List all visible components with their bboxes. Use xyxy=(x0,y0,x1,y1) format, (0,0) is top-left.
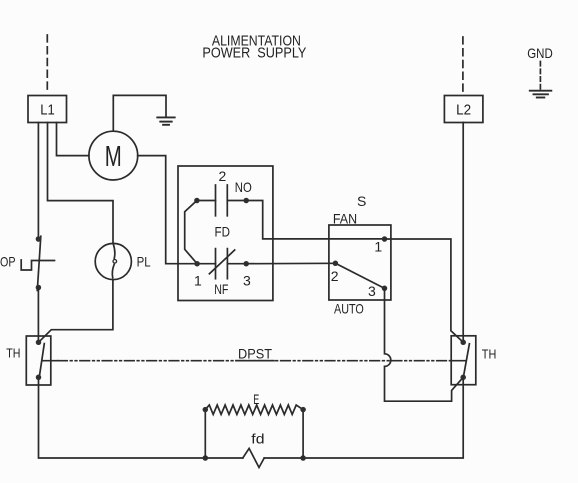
junction TH right top xyxy=(460,340,466,346)
wire motor right to FD pin 1 xyxy=(138,156,197,264)
contact FD NO (pin 2) xyxy=(197,168,252,216)
thermal switch TH left xyxy=(6,336,51,385)
node ALIMENTATION / POWER SUPPLY title xyxy=(202,32,306,61)
junction FD NF right xyxy=(243,261,249,267)
svg-text:AUTO: AUTO xyxy=(334,301,364,317)
pilot light PL xyxy=(95,243,151,279)
svg-text:GND: GND xyxy=(527,45,553,61)
terminal L1 xyxy=(28,96,67,123)
svg-text:S: S xyxy=(357,193,366,209)
thermal switch TH right xyxy=(451,336,496,385)
svg-text:1: 1 xyxy=(194,272,202,288)
wire OP to TH left xyxy=(37,288,39,343)
wire FD NO to FAN pin 1 xyxy=(246,201,384,239)
svg-text:PL: PL xyxy=(137,253,151,269)
resistor E xyxy=(205,391,303,414)
junction TH right bottom xyxy=(460,375,466,381)
wire dashed lead above L2 xyxy=(462,37,464,93)
relay box FD xyxy=(178,166,273,301)
wire E left leg xyxy=(204,410,206,458)
svg-text:2: 2 xyxy=(219,168,227,184)
junction rail left xyxy=(203,455,209,461)
junction E left xyxy=(203,407,209,413)
junction FD NO right xyxy=(243,198,249,204)
wire dashed lead below GND xyxy=(539,62,541,90)
wire dashed lead above L1 xyxy=(46,35,48,93)
wire L1 to motor M xyxy=(57,123,89,156)
svg-text:2: 2 xyxy=(331,268,339,284)
ground (near motor) xyxy=(157,117,174,124)
motor M xyxy=(89,131,138,180)
wire L1 to OP contact xyxy=(37,123,39,240)
junction FAN pin 3 xyxy=(382,286,388,292)
wire TH right bottom to rail xyxy=(264,377,463,458)
junction FAN pin 2 xyxy=(333,261,339,267)
junction FAN pin 1 xyxy=(382,236,388,242)
svg-text:E: E xyxy=(253,391,259,407)
linkage DPST dash-dot line xyxy=(42,346,466,362)
wire motor top to ground xyxy=(113,95,166,131)
svg-text:L2: L2 xyxy=(456,102,471,119)
junction OP bottom xyxy=(36,285,42,291)
svg-text:NF: NF xyxy=(214,281,228,297)
wire L2 to TH right top xyxy=(462,123,464,343)
svg-text:OP: OP xyxy=(0,254,16,270)
svg-text:FD: FD xyxy=(215,223,231,239)
junction FD NO left xyxy=(194,198,200,204)
svg-text:TH: TH xyxy=(482,347,497,361)
wire FAN pin 3 down with hop xyxy=(385,288,464,401)
svg-text:L1: L1 xyxy=(40,102,55,119)
pushbutton OP xyxy=(0,236,55,290)
svg-text:POWER SUPPLY: POWER SUPPLY xyxy=(202,44,306,61)
junction FD NF left xyxy=(194,261,200,267)
junction E right xyxy=(300,407,306,413)
svg-text:3: 3 xyxy=(243,272,251,288)
svg-text:M: M xyxy=(105,141,122,173)
switch S FAN/AUTO xyxy=(329,193,391,317)
svg-text:fd: fd xyxy=(251,430,264,446)
junction TH left bottom xyxy=(36,375,42,381)
svg-text:TH: TH xyxy=(6,347,20,361)
ground GND xyxy=(530,91,552,98)
terminal L2 xyxy=(444,96,483,123)
wire FAN pin 1 to TH right top xyxy=(385,239,464,342)
junction rail right xyxy=(300,455,306,461)
svg-text:3: 3 xyxy=(368,283,376,299)
wire FD left link xyxy=(185,201,197,264)
contact FD NF (pins 1-3) xyxy=(194,249,251,297)
svg-text:FAN: FAN xyxy=(333,210,357,226)
wire TH left bottom to bottom rail xyxy=(39,377,243,458)
svg-text:1: 1 xyxy=(374,239,382,255)
fuse fd in bottom rail xyxy=(243,430,265,467)
wire FD NF to FAN pin 2 xyxy=(246,262,335,264)
wire L1 to PL lamp xyxy=(48,123,114,244)
wire E right leg xyxy=(302,410,304,458)
junction TH left top xyxy=(36,340,42,346)
svg-text:DPST: DPST xyxy=(238,346,272,362)
wire PL bottom to TH left top xyxy=(39,280,113,343)
svg-text:NO: NO xyxy=(235,179,252,195)
junction OP top xyxy=(36,236,42,242)
